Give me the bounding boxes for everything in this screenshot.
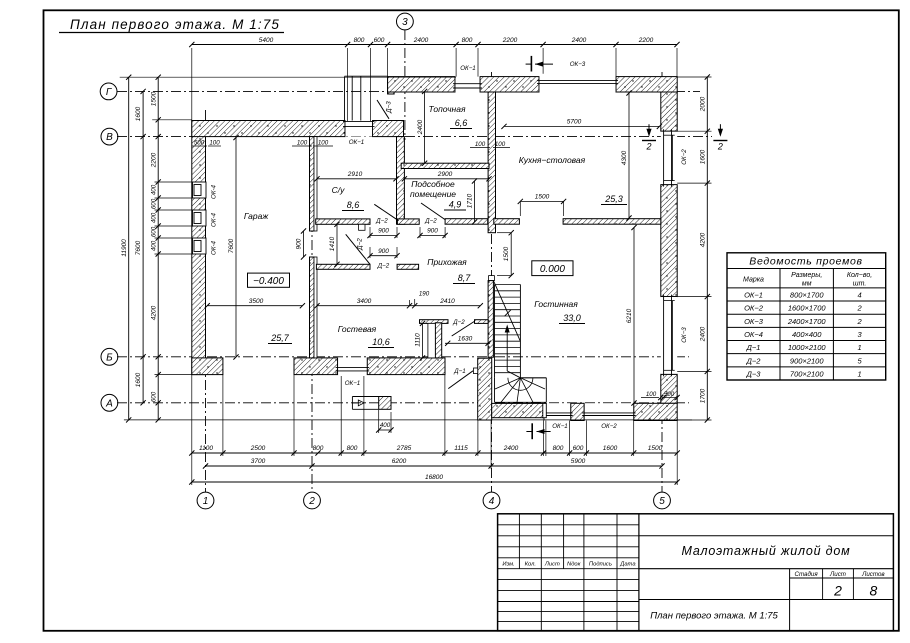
bottom-right wall seg3 [634, 403, 678, 420]
svg-text:ОК−3: ОК−3 [744, 317, 764, 326]
svg-text:400: 400 [150, 184, 157, 195]
axis line 1 vertical [205, 110, 207, 492]
stair treads [495, 284, 521, 286]
svg-text:ОК−3: ОК−3 [681, 327, 688, 343]
chimney pillar [379, 397, 391, 410]
svg-text:100: 100 [646, 391, 657, 398]
svg-text:Лист: Лист [544, 562, 560, 568]
svg-text:ОК−2: ОК−2 [601, 423, 617, 430]
svg-text:Д−2: Д−2 [377, 263, 390, 270]
window OK-1 in guest room bottom wall [338, 358, 368, 375]
svg-text:5400: 5400 [259, 37, 274, 44]
dim 900 door C/y [370, 235, 397, 237]
svg-text:1600×1700: 1600×1700 [788, 304, 827, 313]
bottom dim row 1 [192, 452, 677, 454]
svg-text:6200: 6200 [392, 458, 407, 465]
bottom-left wall seg3 [367, 358, 445, 375]
dim 6210 vert (living) [633, 228, 635, 404]
svg-text:800: 800 [553, 445, 564, 452]
svg-text:Листов: Листов [861, 571, 885, 578]
svg-text:8,7: 8,7 [458, 273, 472, 283]
svg-text:0.000: 0.000 [540, 264, 565, 275]
svg-text:900×2100: 900×2100 [790, 356, 824, 365]
window OK-3 in kitchen top wall [539, 77, 616, 92]
svg-text:900: 900 [378, 228, 389, 235]
svg-text:400: 400 [150, 240, 157, 251]
svg-text:16800: 16800 [425, 474, 443, 481]
svg-text:ОК−1: ОК−1 [345, 380, 361, 387]
svg-text:8: 8 [870, 583, 878, 599]
svg-text:шт.: шт. [853, 281, 867, 288]
bottom dim row 3 [192, 481, 677, 483]
svg-text:1630: 1630 [458, 336, 473, 343]
svg-text:Малоэтажный жилой дом: Малоэтажный жилой дом [682, 544, 851, 558]
svg-text:3700: 3700 [251, 458, 266, 465]
axis line В horizontal [117, 136, 712, 138]
svg-text:6,6: 6,6 [455, 118, 468, 128]
level mark 0.000 [532, 261, 573, 276]
svg-text:мм: мм [802, 281, 812, 288]
stair bay west wall [478, 358, 492, 420]
axis bubble 1 [197, 492, 214, 509]
left dim line middle [142, 91, 144, 402]
axis-4 wall jamb block [489, 276, 495, 281]
svg-text:1500: 1500 [535, 194, 550, 201]
wall between doors D-2 [397, 219, 419, 224]
svg-text:Размеры,: Размеры, [791, 272, 822, 279]
axis line Г horizontal [117, 90, 700, 92]
dim 900 door utility [420, 235, 445, 237]
axis bubble В [101, 128, 118, 145]
window OK-3 in right wall (living) [661, 297, 677, 375]
svg-text:Б: Б [106, 352, 113, 363]
svg-text:Изм.: Изм. [502, 562, 514, 568]
svg-text:5700: 5700 [567, 119, 582, 126]
kitchen bottom wall east seg [563, 219, 661, 225]
section mark 2 inner [648, 124, 650, 135]
svg-text:100: 100 [297, 140, 308, 147]
svg-text:Д−2: Д−2 [375, 218, 388, 225]
guest room partition jamb [475, 320, 489, 324]
svg-text:ОК-4: ОК-4 [211, 212, 218, 227]
dim 400 chimney [379, 429, 391, 431]
svg-text:ОК−1: ОК−1 [552, 423, 568, 430]
svg-text:Прихожая: Прихожая [427, 257, 467, 267]
door D-2 leaf (guest partition) [452, 322, 475, 337]
axis line 4 vertical [491, 72, 493, 492]
left dim line inner [157, 77, 159, 420]
svg-text:2: 2 [856, 317, 862, 326]
boiler room bottom wall [401, 163, 489, 168]
bottom extension lines [191, 375, 193, 485]
svg-text:1600: 1600 [135, 106, 142, 121]
svg-text:План первого этажа. М 1:75: План первого этажа. М 1:75 [70, 17, 280, 32]
vent shaft lines [428, 323, 435, 358]
window OK-4 #2 in left wall [193, 210, 207, 226]
svg-text:ОК−1: ОК−1 [744, 291, 763, 300]
axis line Б horizontal [117, 356, 689, 358]
dim 1410 vert hall [336, 224, 338, 264]
svg-text:2500: 2500 [250, 445, 266, 452]
right dim line [706, 77, 708, 420]
svg-text:6210: 6210 [626, 308, 633, 323]
svg-text:2410: 2410 [439, 298, 455, 305]
svg-text:4: 4 [489, 496, 495, 507]
svg-text:Гостинная: Гостинная [534, 299, 578, 309]
title block left grid [638, 514, 640, 631]
svg-text:900: 900 [427, 228, 438, 235]
svg-text:7600: 7600 [228, 238, 235, 253]
openings schedule table [727, 253, 886, 380]
svg-text:190: 190 [419, 291, 430, 298]
svg-text:ОК-4: ОК-4 [211, 184, 218, 199]
utility room bottom wall east [445, 219, 488, 225]
main top wall seg3 [616, 77, 677, 92]
svg-text:В: В [106, 132, 113, 143]
svg-text:600: 600 [150, 226, 157, 237]
svg-text:4,9: 4,9 [449, 200, 462, 210]
svg-text:Стадия: Стадия [795, 571, 819, 578]
svg-text:400: 400 [150, 212, 157, 223]
svg-text:2400: 2400 [571, 37, 587, 44]
svg-text:ОК−3: ОК−3 [570, 61, 586, 68]
axis line 3 vertical [404, 30, 406, 140]
svg-text:2: 2 [833, 583, 842, 599]
axis line 5 vertical [661, 72, 663, 492]
svg-text:1100: 1100 [199, 445, 213, 452]
right exterior wall seg1 [661, 92, 677, 131]
axis-4 interior wall upper [488, 92, 495, 233]
left exterior wall [192, 121, 206, 375]
svg-text:500: 500 [664, 391, 675, 398]
svg-text:2200: 2200 [502, 37, 518, 44]
axis bubble 4 [483, 492, 500, 509]
svg-text:400×400: 400×400 [792, 330, 822, 339]
svg-text:ОК−1: ОК−1 [349, 139, 365, 146]
svg-text:Дата: Дата [619, 562, 636, 568]
svg-text:А: А [105, 398, 113, 409]
dim 1710 vert (utility) [474, 181, 476, 222]
window OK-1 in living bottom wall [544, 403, 571, 420]
garage top wall east part [373, 121, 404, 137]
dim 2400 vert (boiler) [424, 91, 426, 163]
svg-text:Топочная: Топочная [428, 104, 465, 114]
svg-text:3: 3 [402, 17, 408, 28]
svg-text:Д−2: Д−2 [424, 218, 437, 225]
svg-text:8,6: 8,6 [347, 200, 360, 210]
svg-text:2: 2 [645, 142, 651, 152]
door D-2 leaf (C/y) [374, 204, 398, 220]
axis bubble 5 [654, 492, 671, 509]
svg-text:10,6: 10,6 [372, 337, 390, 347]
main top wall seg1 [388, 77, 455, 92]
svg-text:ОК−4: ОК−4 [744, 330, 763, 339]
svg-text:5: 5 [659, 496, 665, 507]
svg-text:600: 600 [573, 445, 584, 452]
stair up arrow [507, 371, 520, 378]
axis-4 wall stair side [488, 281, 493, 358]
top extension lines [191, 48, 193, 121]
bottom dim row 2 [206, 465, 663, 467]
wall step near stair bay [543, 403, 547, 417]
bottom-left wall seg2 [294, 358, 338, 375]
svg-text:1700: 1700 [699, 388, 706, 403]
svg-text:1600: 1600 [603, 445, 618, 452]
door D-2 leaf (utility) [421, 203, 445, 220]
svg-text:4300: 4300 [621, 150, 628, 165]
svg-text:3500: 3500 [249, 298, 264, 305]
svg-text:1: 1 [203, 496, 209, 507]
axis bubble А [101, 394, 118, 411]
axis line 2 vertical [311, 132, 313, 492]
hall bottom wall east [397, 264, 419, 269]
svg-text:1000×2100: 1000×2100 [788, 343, 827, 352]
svg-text:Гараж: Гараж [244, 211, 270, 221]
svg-text:Лист: Лист [829, 571, 846, 578]
dim 1110 vert guest [422, 323, 424, 358]
svg-text:800: 800 [354, 37, 365, 44]
dim 2900 (utility width) [404, 178, 489, 180]
svg-text:Гостевая: Гостевая [338, 324, 377, 334]
svg-text:−0.400: −0.400 [253, 276, 284, 287]
right extension lines [677, 76, 711, 78]
svg-text:7600: 7600 [135, 240, 142, 255]
dim 1630 guest door [445, 342, 490, 344]
svg-text:1115: 1115 [454, 445, 468, 452]
bottom-right wall seg1 [492, 403, 547, 417]
svg-text:ОК−2: ОК−2 [744, 304, 764, 313]
guest room east wall [435, 323, 441, 358]
dim 4300 vert (kitchen) [628, 93, 630, 218]
dim 5700 (kitchen width) [504, 125, 659, 127]
svg-text:Д−3: Д−3 [746, 369, 762, 378]
window OK-4 #3 in left wall [193, 238, 207, 254]
svg-text:План первого этажа. М 1:75: План первого этажа. М 1:75 [650, 611, 778, 622]
hall bottom wall west [316, 264, 370, 269]
svg-text:1410: 1410 [329, 236, 336, 251]
svg-text:1: 1 [857, 369, 861, 378]
stair flight edges [519, 285, 521, 378]
svg-text:1: 1 [857, 343, 861, 352]
title block outline [498, 514, 894, 631]
svg-text:2200: 2200 [638, 37, 654, 44]
svg-text:2: 2 [856, 304, 862, 313]
flue stack lines above OK-1 [344, 77, 346, 121]
dim 3500 + 3400 + 190 + 2410 line [207, 305, 302, 307]
axis line А horizontal [117, 402, 689, 404]
right exterior wall seg3 [661, 374, 677, 403]
door D-3 leaf [377, 100, 389, 119]
dim 1500 vert living opening [510, 233, 512, 276]
svg-text:С/у: С/у [332, 185, 346, 195]
svg-text:25,7: 25,7 [270, 333, 290, 343]
svg-text:700×2100: 700×2100 [790, 369, 824, 378]
svg-text:600: 600 [150, 198, 157, 209]
door D-1 leaf (entrance) [448, 371, 473, 389]
svg-text:400: 400 [380, 422, 391, 429]
garage / C-y wall edge lines [314, 137, 317, 231]
dim 7600 vert (garage) [235, 138, 237, 358]
svg-text:800×1700: 800×1700 [790, 291, 824, 300]
svg-text:Марка: Марка [743, 277, 764, 284]
axis bubble Б [101, 348, 118, 365]
flue fitting [351, 397, 353, 410]
svg-text:3400: 3400 [357, 298, 372, 305]
svg-text:Кухня−столовая: Кухня−столовая [519, 155, 586, 165]
svg-text:100: 100 [318, 140, 329, 147]
section mark 1 bottom [531, 423, 533, 439]
svg-text:2785: 2785 [396, 445, 412, 452]
svg-text:1600: 1600 [699, 149, 706, 164]
stadiya list listov header [789, 569, 791, 631]
stair break diagonal [493, 281, 520, 342]
dim 900 door hall lower [370, 255, 397, 257]
main top wall seg2 [480, 77, 539, 92]
svg-text:2: 2 [717, 142, 723, 152]
svg-text:800: 800 [347, 445, 358, 452]
window OK-2 in right wall (kitchen) [661, 131, 677, 184]
kitchen bottom wall west seg [494, 219, 520, 225]
svg-text:Д−2: Д−2 [452, 319, 465, 326]
svg-text:1500: 1500 [648, 445, 663, 452]
svg-text:100: 100 [475, 141, 486, 148]
svg-text:2000: 2000 [699, 96, 706, 112]
svg-text:2200: 2200 [150, 152, 157, 168]
door D-2 leaf (hall lower) [346, 234, 370, 264]
axis bubble 2 [304, 492, 321, 509]
axis bubble 3 top [397, 13, 414, 30]
C/y door jamb notch [359, 224, 365, 230]
svg-text:2900: 2900 [437, 171, 453, 178]
svg-text:11900: 11900 [121, 239, 128, 257]
svg-text:Ведомость проемов: Ведомость проемов [749, 256, 862, 268]
svg-text:1600: 1600 [135, 372, 142, 387]
svg-text:2: 2 [308, 496, 315, 507]
svg-text:ОК−2: ОК−2 [681, 149, 688, 165]
window OK-1 in C/y top wall [345, 121, 373, 137]
svg-text:Подсобное: Подсобное [411, 179, 455, 189]
door D-1 jamb notch [474, 368, 478, 374]
svg-text:Д−3: Д−3 [386, 101, 393, 114]
svg-text:100: 100 [495, 141, 506, 148]
stair winder fan [495, 378, 520, 389]
top dimension line [192, 44, 677, 46]
window OK-4 #1 in left wall [193, 182, 207, 198]
bottom-right wall seg2 [571, 403, 585, 420]
window OK-2 in living bottom wall [584, 403, 634, 420]
level mark -0.400 [248, 273, 290, 287]
dim 2910 (C/y width) [317, 178, 396, 180]
svg-text:1110: 1110 [415, 333, 422, 347]
svg-text:900: 900 [296, 238, 303, 249]
svg-text:25,3: 25,3 [604, 194, 623, 204]
garage / C-y wall lower [310, 257, 315, 358]
svg-text:1500: 1500 [503, 246, 510, 261]
svg-text:Д−2: Д−2 [746, 356, 762, 365]
svg-text:900: 900 [378, 248, 389, 255]
left grid lower verticals [540, 569, 542, 631]
svg-text:33,0: 33,0 [563, 313, 581, 323]
svg-text:2400: 2400 [503, 445, 519, 452]
stair winder box [520, 377, 546, 379]
svg-text:600: 600 [374, 37, 385, 44]
right exterior wall seg2 [661, 185, 677, 297]
left extension lines [120, 76, 456, 78]
dim 1500 kitchen opening [520, 200, 563, 202]
bottom-left wall seg1 [192, 358, 223, 375]
svg-text:1500: 1500 [150, 91, 157, 106]
guest room partition west piece [420, 320, 449, 324]
bottom long extension line [124, 419, 692, 421]
svg-text:500: 500 [194, 140, 205, 147]
section mark 2 outer [719, 124, 721, 135]
boiler room west wall upper [388, 79, 395, 94]
svg-text:ОК−1: ОК−1 [460, 65, 476, 72]
dim 900 vert garage door [303, 231, 305, 257]
svg-text:ОК-4: ОК-4 [211, 240, 218, 255]
svg-text:4200: 4200 [699, 232, 706, 247]
svg-text:2400: 2400 [413, 37, 429, 44]
left dim line 11900 [128, 77, 130, 420]
svg-text:5900: 5900 [571, 458, 586, 465]
window OK-1 in boiler top wall [455, 77, 480, 92]
garage / C-y wall [310, 137, 315, 231]
svg-text:Подпись: Подпись [589, 562, 612, 568]
garage top wall west part [192, 121, 345, 137]
svg-text:Д−1: Д−1 [746, 343, 761, 352]
svg-text:помещение: помещение [410, 189, 456, 199]
hall top wall (C/y bottom) [316, 219, 370, 224]
stair break zig [505, 310, 512, 317]
svg-text:800: 800 [313, 445, 324, 452]
svg-text:100: 100 [209, 140, 220, 147]
section mark 1 top [530, 56, 532, 72]
svg-text:Кол.: Кол. [525, 562, 536, 568]
svg-text:Nдок: Nдок [567, 562, 581, 568]
svg-text:1710: 1710 [467, 193, 474, 208]
axis bubble Г [100, 83, 117, 100]
C/y west wall (topochnaya lower west) [397, 137, 405, 225]
svg-text:600: 600 [150, 391, 157, 402]
svg-text:2400: 2400 [699, 326, 706, 342]
svg-text:800: 800 [462, 37, 473, 44]
svg-text:Кол−во,: Кол−во, [847, 272, 872, 279]
svg-text:4200: 4200 [150, 305, 157, 320]
svg-text:2400: 2400 [417, 119, 424, 135]
svg-text:2400×1700: 2400×1700 [787, 317, 827, 326]
svg-text:4: 4 [857, 291, 861, 300]
svg-text:Д−1: Д−1 [453, 368, 465, 375]
svg-text:2910: 2910 [347, 171, 363, 178]
svg-text:Д−2: Д−2 [357, 238, 364, 251]
